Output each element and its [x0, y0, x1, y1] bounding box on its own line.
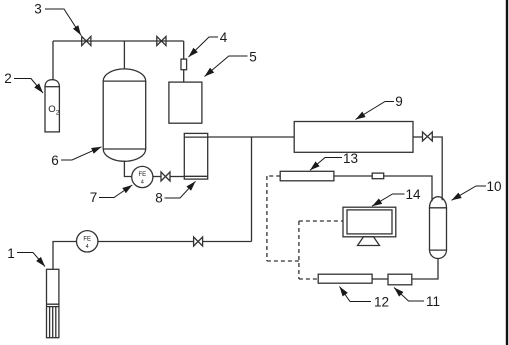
- label 7 with leader: [90, 185, 133, 205]
- component 9: reactor box: [294, 122, 413, 153]
- label 2 with leader: [4, 71, 43, 93]
- svg-text:2: 2: [4, 71, 12, 86]
- label 1 with leader: [7, 246, 45, 267]
- svg-text:10: 10: [486, 179, 501, 194]
- wire: drop to component 4 and 5: [183, 41, 185, 82]
- wire: inline fitting to vessel 10: [384, 176, 432, 201]
- svg-text:3: 3: [34, 2, 42, 17]
- svg-text:5: 5: [249, 50, 257, 65]
- label 11 with leader: [394, 288, 440, 310]
- svg-text:14: 14: [405, 187, 421, 202]
- svg-text:2: 2: [56, 110, 60, 117]
- label 10 with leader: [452, 179, 502, 200]
- component 6: vertical vessel: [103, 69, 146, 161]
- wire: component 13 to inline fitting: [334, 175, 372, 177]
- wire: O2 cylinder riser: [52, 41, 54, 80]
- wire: vessel 10 bottom to component 11: [412, 258, 438, 279]
- wire: dashed signal cross link: [267, 260, 299, 262]
- component 13: sensor bar: [280, 171, 334, 181]
- svg-text:4: 4: [141, 180, 144, 186]
- label 5 with leader: [205, 50, 257, 77]
- component 4: inline filter: [181, 59, 187, 70]
- svg-text:7: 7: [90, 190, 98, 205]
- right scan border: [506, 0, 508, 345]
- label 3 with leader: [34, 2, 81, 36]
- wire: vessel 6 bottom outlet to FE 7: [124, 161, 131, 177]
- label 12 with leader: [340, 287, 390, 310]
- wire: dashed signal to monitor 14: [299, 220, 343, 222]
- wire: sample valve to junction: [203, 241, 252, 243]
- wire: component 1 riser: [53, 242, 77, 270]
- svg-text:12: 12: [374, 295, 389, 310]
- component 1: groundwater well: [47, 269, 59, 337]
- wire: FE to sample valve: [98, 241, 194, 243]
- wire: dashed signal 13 to riser: [267, 175, 280, 177]
- wire: component 9 to outlet valve: [413, 136, 423, 138]
- svg-text:4: 4: [220, 30, 228, 45]
- valve (top, unnumbered): [157, 36, 166, 45]
- wire: component 11 to component 12: [372, 278, 388, 280]
- svg-text:1: 1: [7, 246, 15, 261]
- wire: junction drop from 8-9 line to sample line: [251, 137, 253, 242]
- component 11: small box: [388, 274, 412, 285]
- label 13 with leader: [310, 151, 358, 170]
- component 14: computer monitor: [343, 207, 396, 245]
- svg-text:13: 13: [343, 151, 358, 166]
- component 5: box: [169, 82, 202, 123]
- inline fitting (on 13 line): [372, 173, 384, 179]
- svg-text:8: 8: [155, 191, 163, 206]
- valve (sample line): [194, 237, 203, 246]
- valve (after 9): [423, 132, 433, 141]
- wire: dashed signal riser left: [266, 176, 268, 261]
- wire: valve to component 8: [170, 176, 184, 178]
- component 10: vertical separator vessel: [430, 197, 447, 259]
- label 4 with leader: [189, 30, 228, 57]
- label 6 with leader: [51, 147, 101, 168]
- component 12: bar box: [318, 274, 372, 283]
- svg-text:6: 6: [51, 153, 59, 168]
- valve (between 7 and 8): [161, 172, 170, 181]
- label 14 with leader: [372, 187, 421, 206]
- svg-text:O: O: [48, 104, 55, 115]
- svg-text:11: 11: [426, 294, 440, 309]
- component 2: O2 gas cylinder: [45, 80, 59, 132]
- svg-text:4: 4: [86, 244, 89, 250]
- wire: dashed signal riser right: [298, 221, 300, 279]
- svg-text:FE: FE: [138, 172, 146, 178]
- component 8: column: [184, 133, 207, 179]
- label 8 with leader: [155, 181, 195, 205]
- instrument FE 7: [132, 166, 153, 187]
- wire: FE 7 to valve: [153, 176, 161, 178]
- valve 3: [82, 36, 91, 45]
- instrument FE (on sample line): [77, 231, 98, 252]
- label O2 inside cylinder: [48, 104, 60, 117]
- label 9 with leader: [356, 94, 403, 120]
- wire: top manifold line: [53, 40, 184, 42]
- wire: component 8 to component 9: [208, 136, 295, 138]
- wire: outlet valve to vessel 10: [432, 137, 442, 200]
- wire: dashed signal to component 12: [299, 278, 318, 280]
- wire: vessel 6 top riser: [123, 41, 125, 69]
- svg-text:FE: FE: [83, 236, 91, 242]
- svg-text:9: 9: [395, 94, 403, 109]
